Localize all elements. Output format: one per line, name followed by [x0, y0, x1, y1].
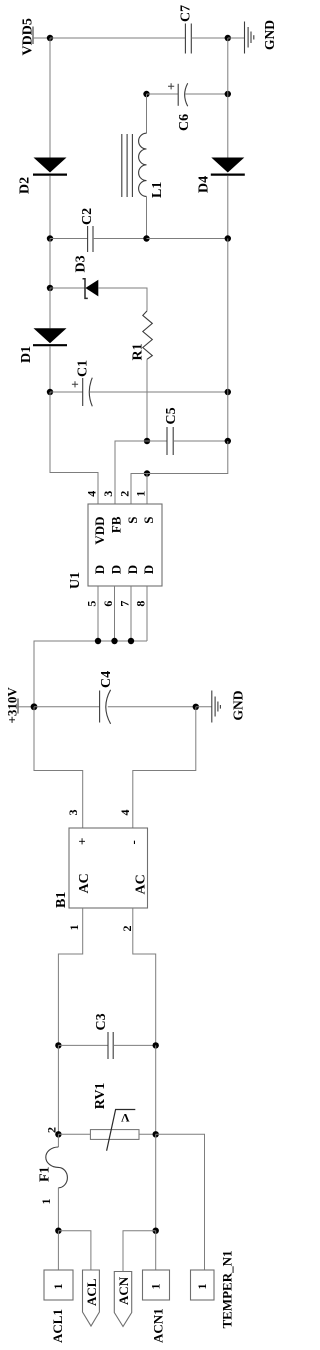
node C5 left junction	[144, 438, 150, 444]
svg-text:D: D	[92, 565, 107, 574]
wire C7 to GND node	[191, 37, 228, 39]
wire R1 bottom lead	[146, 359, 148, 441]
capacitor C7	[179, 5, 194, 54]
svg-text:D: D	[109, 565, 124, 574]
svg-text:ACL1: ACL1	[50, 1309, 65, 1343]
bridge rectifier B1 body	[69, 828, 148, 908]
svg-text:Λ: Λ	[121, 1111, 130, 1125]
svg-text:C4: C4	[99, 671, 114, 688]
wire FB row left	[115, 441, 147, 504]
node D3 left junction	[47, 285, 53, 291]
wire left rail below D2	[49, 176, 51, 239]
capacitor C3	[94, 1013, 113, 1059]
capacitor C5	[164, 407, 179, 455]
wire +310V stub	[18, 706, 34, 708]
wire pin7 lead	[130, 586, 132, 641]
wire C1 row right	[90, 391, 228, 393]
connector TEMPER_N1	[191, 1251, 235, 1329]
svg-text:ACN: ACN	[116, 1276, 131, 1305]
svg-text:C5: C5	[164, 407, 179, 424]
wire B1 pin3 jog	[34, 707, 83, 828]
wire +310V row right	[108, 706, 196, 708]
wire RV1 row left	[58, 1133, 90, 1135]
svg-text:S: S	[125, 517, 140, 524]
svg-text:4: 4	[85, 491, 99, 497]
node C2 mid junction	[143, 235, 149, 241]
wire left rail below D1	[49, 346, 51, 392]
svg-text:2: 2	[120, 926, 134, 932]
svg-text:D3: D3	[74, 255, 89, 272]
svg-text:D2: D2	[18, 177, 33, 194]
wire right rail C3 to RV1	[155, 1045, 157, 1134]
svg-text:VDD5: VDD5	[21, 18, 36, 55]
varistor RV1	[90, 1083, 139, 1151]
wire right rail C2 to C1	[227, 239, 229, 393]
wire C3 row left	[58, 1044, 108, 1046]
wire mid rail L1 top lead	[146, 94, 148, 133]
wire ACL1 lead	[57, 1231, 59, 1270]
svg-text:GND: GND	[262, 20, 277, 50]
node RV1 left junction	[55, 1131, 61, 1137]
diode D2	[18, 158, 68, 195]
capacitor C6	[168, 83, 192, 131]
node C2 left junction	[47, 235, 53, 241]
svg-text:C6: C6	[177, 114, 192, 131]
ground GND mid	[212, 690, 246, 722]
wire ACL flag branch	[58, 1231, 91, 1270]
svg-text:3: 3	[66, 810, 80, 816]
wire C2 row right	[147, 238, 228, 240]
wire S loop right	[147, 441, 228, 474]
wire left rail upper	[49, 38, 51, 158]
wire left rail D3 to D1	[49, 288, 51, 328]
svg-text:+310V: +310V	[5, 687, 20, 724]
op-amp U1 body	[88, 504, 162, 586]
node ACN port flag	[114, 1272, 131, 1327]
svg-text:VDD: VDD	[92, 517, 107, 545]
node top-right junction	[225, 35, 231, 41]
svg-text:ACL: ACL	[84, 1278, 99, 1306]
wire C2 row left	[50, 238, 88, 240]
wire mid rail L1 bottom lead	[146, 196, 148, 238]
svg-text:B1: B1	[54, 892, 69, 908]
connector ACN1	[143, 1270, 170, 1343]
fuse F1	[38, 1147, 68, 1188]
capacitor C2	[80, 208, 95, 252]
svg-text:1: 1	[195, 1284, 209, 1290]
svg-text:1: 1	[67, 925, 81, 931]
capacitor C1	[72, 360, 92, 406]
wire D3 row left	[50, 287, 85, 289]
diode D3 zener	[74, 255, 99, 298]
node mid GND junction	[193, 704, 199, 710]
wire F1 top lead	[57, 1134, 59, 1147]
svg-text:1: 1	[39, 1199, 53, 1205]
power port VDD5	[21, 18, 36, 55]
connector ACL1	[44, 1270, 73, 1343]
wire C5 row right	[173, 440, 228, 442]
wire left rail C3 to RV1	[57, 1045, 59, 1134]
wire left rail C2 to D3	[49, 239, 51, 289]
svg-text:5: 5	[85, 601, 99, 607]
wire right rail upper	[227, 38, 229, 158]
node ACL junction	[55, 1228, 61, 1234]
wire pin1 lead	[146, 474, 148, 505]
node C3 right junction	[153, 1042, 159, 1048]
svg-text:F1: F1	[38, 1166, 53, 1182]
svg-text:1: 1	[51, 1284, 65, 1290]
wire C6 row right	[185, 93, 228, 95]
wire F1 bottom lead	[57, 1188, 59, 1231]
svg-text:D: D	[125, 565, 140, 574]
wire right rail C1 to C5	[227, 392, 229, 441]
svg-text:D: D	[141, 565, 156, 574]
node VDD5 junction	[47, 35, 53, 41]
node bus pin7	[128, 638, 134, 644]
svg-text:ACN1: ACN1	[151, 1308, 166, 1343]
svg-text:2: 2	[45, 1127, 59, 1133]
wire pin8 lead	[146, 586, 148, 641]
wire left rail C1 to VDD jog	[50, 392, 98, 504]
svg-text:L1: L1	[150, 182, 165, 198]
wire C6 row left	[147, 93, 179, 95]
wire D3 row right	[98, 288, 147, 311]
power port +310V	[5, 687, 20, 724]
node C6 right junction	[225, 91, 231, 97]
wire B1 pin4 jog	[133, 707, 196, 828]
node C5 right junction	[225, 438, 231, 444]
resistor R1	[131, 311, 153, 361]
capacitor C4	[99, 671, 114, 724]
node bus pin6	[111, 638, 117, 644]
wire C2 row middle	[93, 238, 147, 240]
wire C3 row right	[113, 1044, 156, 1046]
svg-text:AC: AC	[134, 874, 149, 894]
ground GND top	[245, 20, 278, 54]
svg-text:8: 8	[134, 601, 148, 607]
node RV1 right junction	[153, 1131, 159, 1137]
svg-text:C3: C3	[94, 1013, 109, 1030]
wire B1 pin2 jog	[133, 908, 156, 1045]
svg-text:-: -	[126, 840, 141, 844]
svg-text:AC: AC	[77, 873, 92, 893]
svg-text:1: 1	[134, 491, 148, 497]
svg-text:D4: D4	[197, 176, 212, 193]
wire right rail below D4	[227, 176, 229, 239]
diode D1	[19, 328, 67, 363]
node ACN junction	[153, 1228, 159, 1234]
wire pin5 lead	[97, 586, 99, 641]
svg-text:1: 1	[149, 1284, 163, 1290]
wire GND stub top	[228, 37, 245, 39]
node C1 right junction	[225, 389, 231, 395]
svg-text:6: 6	[101, 601, 115, 607]
svg-text:FB: FB	[109, 516, 124, 533]
wire pin2 jog	[131, 474, 147, 505]
wire ACN rail	[155, 1134, 157, 1230]
diode D4	[197, 158, 245, 194]
svg-text:R1: R1	[131, 343, 146, 360]
svg-text:U1: U1	[68, 572, 83, 589]
svg-text:+: +	[75, 838, 90, 845]
svg-text:7: 7	[118, 601, 132, 607]
svg-text:C1: C1	[76, 360, 91, 377]
svg-text:3: 3	[101, 491, 115, 497]
wire ACN1 lead	[155, 1231, 157, 1270]
node ACL port flag	[83, 1270, 100, 1326]
wire VDD5 stub	[33, 37, 50, 39]
svg-text:2: 2	[118, 491, 132, 497]
wire ACN flag branch	[123, 1231, 156, 1272]
svg-text:S: S	[141, 517, 156, 524]
wire top row to C7	[50, 37, 185, 39]
node C1 left junction	[47, 389, 53, 395]
wire pin6 lead	[114, 586, 116, 641]
wire B1 pin1 jog	[58, 908, 82, 1045]
node +310V junction	[31, 703, 38, 710]
node S pins junction	[144, 470, 150, 476]
svg-text:TEMPER_N1: TEMPER_N1	[220, 1251, 235, 1329]
svg-text:RV1: RV1	[93, 1083, 108, 1110]
node C6 left junction	[143, 91, 149, 97]
inductor L1	[122, 133, 165, 198]
svg-text:4: 4	[118, 810, 132, 816]
wire C1 row left	[50, 391, 83, 393]
wire TEMPER branch	[156, 1134, 205, 1270]
wire +310V row left	[34, 706, 100, 708]
wire RV1 row right	[139, 1133, 156, 1135]
svg-text:C2: C2	[80, 208, 95, 225]
node C3 left junction	[55, 1042, 61, 1048]
node C2 right junction	[225, 235, 231, 241]
svg-text:C7: C7	[179, 5, 194, 22]
svg-text:D1: D1	[19, 346, 34, 363]
wire GND stub mid	[196, 706, 212, 708]
node bus pin5	[95, 638, 101, 644]
wire drain bus	[34, 641, 147, 707]
wire C5 row left	[147, 440, 167, 442]
svg-text:GND: GND	[231, 690, 246, 720]
